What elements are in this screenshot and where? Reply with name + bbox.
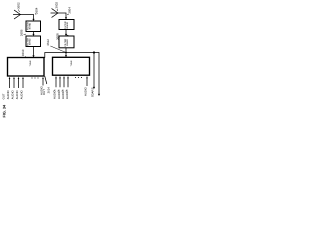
svg-text:3602: 3602	[17, 2, 21, 9]
svg-text:AUDIO: AUDIO	[20, 90, 24, 100]
svg-text:AUDIO: AUDIO	[84, 86, 88, 96]
svg-text:AUDIO: AUDIO	[65, 89, 69, 99]
svg-text:3604: 3604	[67, 7, 71, 14]
svg-text:TUNE: TUNE	[70, 60, 73, 66]
svg-text:OUT: OUT	[2, 93, 6, 99]
svg-text:3612: 3612	[46, 39, 50, 46]
svg-text:3606: 3606	[19, 29, 23, 36]
svg-text:3608: 3608	[56, 33, 60, 40]
svg-text:OUT: OUT	[42, 89, 46, 95]
svg-text:3614: 3614	[46, 87, 50, 94]
svg-text:BAND: BAND	[66, 22, 69, 29]
svg-text:AUDIO: AUDIO	[6, 90, 10, 100]
svg-text:AUDIO: AUDIO	[53, 89, 57, 99]
svg-text:BAND: BAND	[28, 38, 31, 45]
svg-text:BAND: BAND	[66, 39, 69, 46]
svg-text:3604: 3604	[34, 7, 38, 14]
svg-text:SDARS: SDARS	[91, 87, 95, 97]
svg-text:AUDIO: AUDIO	[15, 90, 19, 100]
svg-text:BAND: BAND	[28, 22, 31, 29]
svg-text:3602: 3602	[55, 2, 59, 9]
svg-text:3610: 3610	[21, 49, 25, 56]
svg-text:FIG. 34: FIG. 34	[2, 104, 6, 118]
svg-text:AUDIO: AUDIO	[11, 90, 15, 100]
svg-text:TUNE: TUNE	[29, 60, 32, 66]
